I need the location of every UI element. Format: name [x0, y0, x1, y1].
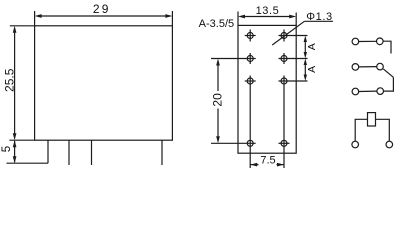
- arrow top of 5 dim: [13, 140, 17, 147]
- schematic contact row2 right terminal: [377, 63, 384, 70]
- wire row1 between terminals: [359, 40, 377, 42]
- pin 1 (side view): [68, 140, 70, 165]
- arrow down of A2: [304, 75, 307, 82]
- arrow bottom of 20 dim: [216, 136, 220, 143]
- hole r1c2: [279, 30, 308, 42]
- svg-text:5: 5: [1, 146, 13, 152]
- coil rectangle: [368, 113, 376, 126]
- arrow left of 7.5 dim: [250, 163, 257, 167]
- hole r3c2: [279, 76, 308, 169]
- arrow top of 25.5 dim: [13, 26, 17, 33]
- mounting tab right edge: [47, 140, 49, 163]
- leader underline of hole diameter label: [304, 20, 333, 22]
- svg-text:Φ1.3: Φ1.3: [306, 11, 332, 23]
- arrow down of A1: [304, 52, 307, 59]
- dimension line 13.5: [241, 16, 293, 18]
- extension line bottom body (for 25.5 dim): [9, 139, 34, 141]
- dimension line 29: [38, 15, 169, 17]
- arrow up of A1: [304, 36, 307, 43]
- wire row3 to lever tip: [384, 77, 394, 91]
- svg-text:A-3.5/5: A-3.5/5: [199, 18, 234, 30]
- coil left terminal: [352, 141, 359, 148]
- dimension line A lower: [304, 62, 306, 79]
- arrow bottom of 25.5 dim: [13, 133, 17, 140]
- extension line right (for 13.5 dim): [295, 13, 297, 26]
- dimension line 7.5 left segment: [250, 164, 258, 166]
- arrow right of 13.5 dim: [289, 15, 296, 19]
- wire row3 between terminals: [359, 90, 377, 92]
- dimension line A upper: [304, 39, 306, 56]
- schematic contact row3 right terminal: [377, 88, 384, 95]
- leader line of hole diameter label: [272, 21, 304, 45]
- svg-text:25.5: 25.5: [3, 68, 17, 92]
- coil right terminal: [386, 141, 393, 148]
- dimension line 20 upper segment: [217, 62, 219, 91]
- schematic contact row2 left terminal: [352, 64, 359, 71]
- mounting tab bottom: [7, 162, 49, 164]
- contact lever row2: [383, 69, 393, 77]
- svg-text:7.5: 7.5: [260, 154, 275, 166]
- arrow bottom of 5 dim: [13, 156, 17, 163]
- hole r4c1: [211, 140, 256, 146]
- hole r2c2: [279, 53, 308, 64]
- arrow top of 20 dim: [216, 59, 220, 66]
- arrow up of A2: [304, 59, 307, 66]
- extension line left (for 13.5 dim): [237, 12, 239, 26]
- arrow left of 13.5 dim: [238, 15, 245, 19]
- extension line left (for 29 dim): [34, 11, 36, 26]
- hole r3c1: [245, 76, 256, 169]
- extension line right (for 29 dim): [171, 11, 173, 26]
- hole r2c1: [211, 53, 256, 64]
- arrow right of 29 dim: [165, 14, 172, 18]
- hole r1c1: [245, 30, 256, 42]
- svg-text:A: A: [306, 43, 318, 50]
- svg-text:29: 29: [93, 2, 111, 16]
- svg-text:20: 20: [210, 93, 224, 107]
- relay body outline (side view): [35, 26, 173, 140]
- wire row2 between terminals: [359, 66, 377, 68]
- pin 2 (side view): [91, 140, 93, 165]
- dimension line 7.5 right segment: [277, 164, 285, 166]
- coil right lead: [376, 119, 390, 141]
- coil left lead: [355, 119, 367, 141]
- arrow left of 29 dim: [35, 14, 42, 18]
- extension line top (for 25.5 dim): [10, 25, 35, 27]
- wire row1 to corner: [383, 41, 391, 53]
- dimension line 20 lower segment: [217, 109, 219, 141]
- dimension line 5: [14, 141, 16, 162]
- schematic contact row1 left terminal: [352, 38, 359, 45]
- pin 3 (side view): [161, 140, 163, 165]
- svg-text:A: A: [306, 66, 318, 73]
- schematic contact row3 left terminal: [352, 88, 359, 95]
- bottom-view rectangle: [238, 25, 296, 153]
- dimension line 25.5: [14, 29, 16, 137]
- hole r4c2: [279, 140, 290, 146]
- svg-text:13.5: 13.5: [256, 5, 280, 17]
- arrow right of 7.5 dim: [277, 163, 284, 167]
- schematic contact row1 right terminal: [377, 38, 384, 45]
